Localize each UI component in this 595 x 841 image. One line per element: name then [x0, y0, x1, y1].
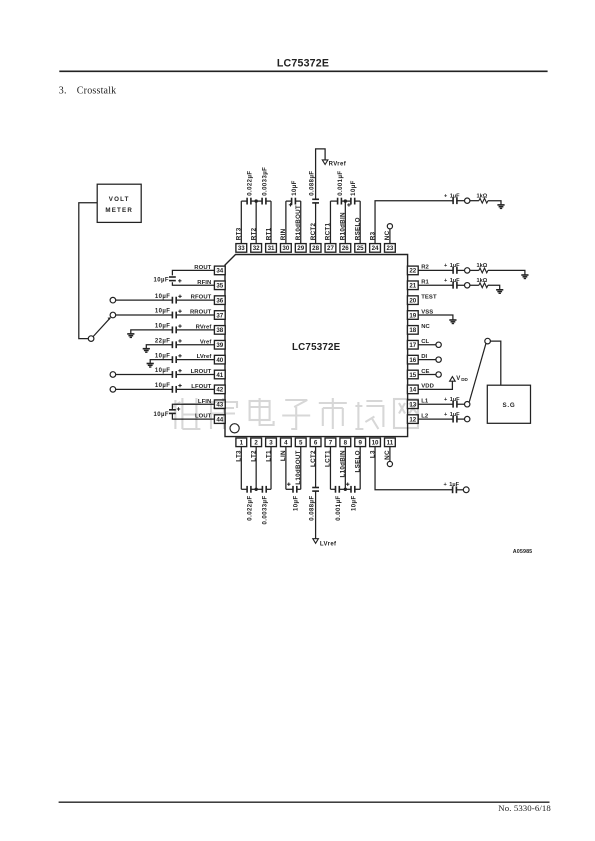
svg-text:7: 7 — [329, 440, 333, 447]
svg-text:40: 40 — [216, 357, 223, 364]
pin 13 box — [407, 400, 418, 409]
wire pin24 R3 lead and run to RC filter — [375, 201, 453, 244]
svg-text:6: 6 — [314, 440, 318, 447]
ground (VSS) — [449, 319, 456, 321]
junction RT2 node — [254, 199, 257, 202]
svg-text:14: 14 — [409, 387, 416, 394]
pin 7 box — [325, 438, 336, 447]
svg-text:34: 34 — [216, 268, 223, 275]
svg-text:27: 27 — [327, 245, 334, 252]
wire pin32 lead — [255, 201, 257, 244]
svg-text:1µF: 1µF — [450, 278, 460, 284]
svg-text:1kΩ: 1kΩ — [477, 193, 488, 199]
svg-text:1µF: 1µF — [450, 263, 460, 269]
svg-text:31: 31 — [268, 245, 275, 252]
pin 25 box — [355, 244, 366, 253]
pin 36 box — [214, 296, 225, 305]
svg-text:5: 5 — [299, 440, 303, 447]
svg-text:36: 36 — [216, 297, 223, 304]
pin 16 box — [407, 355, 418, 364]
pin 2 box — [251, 438, 262, 447]
wire terminal to resistor — [470, 200, 479, 202]
svg-text:4: 4 — [284, 440, 288, 447]
capacitor 0.0033uF (RT2-RT1) — [261, 198, 263, 205]
capacitor 10uF (L10dBIN-LSELO) — [350, 486, 352, 493]
terminal (RFOUT measure point) — [110, 297, 116, 303]
pin 15 box — [407, 370, 418, 379]
wire pin16 DI stub — [418, 359, 436, 361]
wire resistor to ground — [488, 201, 501, 205]
capacitor 10uF (ROUT-RFIN) — [169, 276, 176, 278]
pin 20 box — [407, 296, 418, 305]
capacitor 10µF (LROUT) — [171, 371, 173, 378]
pin 22 box — [407, 266, 418, 275]
pin 6 box — [310, 438, 321, 447]
capacitor 10uF (R10dBIN-RSELO) — [350, 198, 352, 205]
wire RIN-R10dBOUT link — [286, 200, 292, 202]
capacitor 22uF (Vref) — [171, 341, 173, 348]
IC pin-1 index dot — [230, 424, 239, 433]
wire pin23 NC stub — [389, 229, 391, 244]
junction L10dBIN node — [344, 488, 347, 491]
wire cap to ground — [150, 360, 172, 364]
op IC U1 LC75372E body (44-pin QFP) — [225, 255, 408, 437]
wire cap to terminal — [456, 489, 463, 491]
wire pin19 VSS to ground — [418, 315, 453, 320]
capacitor 10uF (LIN-L10dBOUT) — [292, 486, 294, 493]
junction LT2 node — [254, 488, 257, 491]
wire terminal to cap — [116, 314, 173, 316]
terminal (RROUT measure point) — [110, 312, 116, 318]
svg-text:35: 35 — [216, 283, 223, 290]
svg-text:37: 37 — [216, 312, 223, 319]
pin 21 box — [407, 281, 418, 290]
wire cap to terminal — [457, 284, 465, 286]
pin 11 box — [385, 438, 396, 447]
polarity + mark — [178, 295, 181, 297]
svg-text:0.022µF: 0.022µF — [247, 495, 253, 520]
wire pin4 lead — [285, 447, 287, 490]
svg-text:20: 20 — [409, 297, 416, 304]
wire pin31 lead — [270, 201, 272, 244]
terminal CL — [436, 342, 441, 347]
ground (RVref) — [127, 333, 134, 335]
svg-text:0.088µF: 0.088µF — [309, 495, 315, 520]
ground (R2 network) — [521, 274, 528, 276]
svg-text:S.G: S.G — [502, 402, 515, 409]
svg-text:22µF: 22µF — [155, 338, 170, 344]
pin 19 box — [407, 311, 418, 320]
svg-text:1: 1 — [240, 440, 244, 447]
svg-text:25: 25 — [357, 245, 364, 252]
pin 32 box — [251, 244, 262, 253]
wire pin12 L2 to cap — [418, 418, 453, 420]
terminal (R1 measure point) — [465, 283, 470, 288]
polarity + mark — [287, 483, 290, 485]
node RVref (top) — [322, 160, 328, 165]
wire terminal to resistor — [470, 284, 479, 286]
svg-text:LC75372E: LC75372E — [277, 58, 329, 70]
svg-text:A05985: A05985 — [513, 549, 532, 555]
terminal NC (pin23) — [387, 224, 392, 229]
header rule — [59, 70, 547, 72]
polarity + mark — [178, 355, 181, 357]
svg-text:1µF: 1µF — [450, 412, 460, 418]
wire pin40 LVref to cap — [176, 359, 214, 361]
pin 39 box — [214, 340, 225, 349]
svg-text:21: 21 — [409, 283, 416, 290]
volt meter M1 — [97, 184, 141, 222]
svg-text:1µF: 1µF — [449, 482, 459, 488]
pin 27 box — [325, 244, 336, 253]
capacitor 1uF (L3) — [452, 486, 454, 493]
wire RCT2 to RVref — [316, 149, 326, 199]
wire S.G pole to generator — [490, 341, 500, 385]
resistor 1k (R2) — [479, 268, 488, 273]
pin 9 box — [355, 438, 366, 447]
pin 35 box — [214, 281, 225, 290]
pin 28 box — [310, 244, 321, 253]
svg-text:29: 29 — [297, 245, 304, 252]
wire cap to pin — [176, 314, 214, 316]
svg-text:19: 19 — [409, 312, 416, 319]
signal generator S.G box — [487, 385, 530, 423]
ground (Vref) — [143, 348, 150, 350]
terminal CE — [436, 372, 441, 377]
junction R10dBIN node — [344, 199, 347, 202]
svg-text:DD: DD — [461, 377, 468, 382]
svg-text:42: 42 — [216, 387, 223, 394]
wire pin14 VDD to supply — [418, 381, 452, 389]
svg-text:30: 30 — [282, 245, 289, 252]
svg-text:2: 2 — [254, 440, 258, 447]
svg-text:1µF: 1µF — [450, 193, 460, 199]
pin 31 box — [266, 244, 277, 253]
capacitor 10µF (RFOUT) — [171, 297, 173, 304]
pin 44 box — [214, 415, 225, 424]
pin 24 box — [370, 244, 381, 253]
svg-text:+: + — [444, 482, 448, 488]
wire cap to pin — [176, 373, 214, 375]
terminal (R2 measure point) — [465, 268, 470, 273]
wire pin30 lead — [285, 201, 287, 244]
wire cap to ground — [131, 330, 173, 334]
svg-text:Crosstalk: Crosstalk — [77, 86, 117, 97]
wire cap to ground — [146, 345, 172, 349]
wire pin11 NC stub — [389, 447, 391, 462]
terminal (LFOUT measure point) — [110, 387, 116, 393]
svg-text:44: 44 — [216, 416, 223, 423]
svg-text:1kΩ: 1kΩ — [477, 263, 488, 269]
wire pin9 lead — [359, 447, 361, 490]
svg-text:10µF: 10µF — [155, 324, 170, 330]
svg-text:1µF: 1µF — [450, 397, 460, 403]
svg-text:33: 33 — [238, 245, 245, 252]
pin 10 box — [370, 438, 381, 447]
capacitor 0.001uF (LCT1-L10dBIN) — [335, 486, 337, 493]
svg-text:10µF: 10µF — [351, 180, 357, 196]
wire resistor to ground — [488, 270, 525, 275]
svg-text:1kΩ: 1kΩ — [477, 278, 488, 284]
svg-text:10µF: 10µF — [292, 180, 298, 196]
wire terminal to cap — [116, 388, 173, 390]
ground (LVref) — [147, 363, 154, 365]
wire pin33 lead — [240, 201, 242, 244]
svg-text:METER: METER — [105, 207, 133, 214]
wire pin5 lead — [300, 447, 302, 490]
wire resistor to ground — [488, 285, 500, 290]
wire pin38 RVref to cap — [176, 329, 214, 331]
wire LCT1-L10dBIN-LSELO bottom bus — [330, 488, 335, 490]
svg-text:0.001µF: 0.001µF — [336, 495, 342, 520]
wire pin22 R2 to cap — [418, 269, 453, 271]
svg-text:VOLT: VOLT — [109, 196, 130, 203]
capacitor 1uF (R2) — [452, 267, 454, 274]
svg-text:10µF: 10µF — [155, 309, 170, 315]
capacitor 1uF (R1) — [452, 282, 454, 289]
wire cap to pin35 RFIN — [172, 282, 214, 285]
pin 33 box — [236, 244, 247, 253]
switch arm SW2 (signal generator to L1) — [469, 344, 486, 402]
svg-text:8: 8 — [344, 440, 348, 447]
switch arm SW1 (to RROUT) — [93, 318, 110, 337]
svg-text:3.: 3. — [59, 86, 67, 97]
svg-text:TEST: TEST — [421, 294, 437, 300]
polarity + mark — [178, 340, 181, 342]
svg-text:10: 10 — [372, 440, 379, 447]
wire cap to terminal — [457, 418, 465, 420]
terminal (LROUT measure point) — [110, 372, 116, 378]
wire terminal to resistor — [470, 269, 479, 271]
node LVref (bottom) — [313, 539, 319, 544]
wire cap to pin44 LOUT — [172, 414, 214, 419]
pin 42 box — [214, 385, 225, 394]
wire pin39 Vref to cap — [176, 344, 214, 346]
svg-text:17: 17 — [409, 342, 416, 349]
svg-text:18: 18 — [409, 327, 416, 334]
svg-text:RVref: RVref — [329, 161, 347, 167]
capacitor 0.0033uF (LT2-LT1) — [261, 486, 263, 493]
pin 5 box — [295, 438, 306, 447]
pin 37 box — [214, 311, 225, 320]
svg-text:+: + — [444, 193, 448, 199]
capacitor 1uF (L1) — [452, 401, 454, 408]
svg-text:9: 9 — [358, 440, 362, 447]
pin 18 box — [407, 326, 418, 335]
wire LIN-L10dBOUT link — [286, 488, 293, 490]
wire cap to terminal — [457, 200, 465, 202]
pin 23 box — [385, 244, 396, 253]
svg-text:LC75372E: LC75372E — [292, 342, 341, 353]
wire LCT2 to LVref — [315, 491, 317, 539]
svg-text:No. 5330-6/18: No. 5330-6/18 — [498, 803, 551, 813]
svg-text:0.088µF: 0.088µF — [309, 171, 315, 196]
selector pole terminal — [88, 336, 94, 342]
pin 26 box — [340, 244, 351, 253]
wire pin7 lead — [329, 447, 331, 490]
terminal NC (pin11) — [387, 461, 392, 466]
wire pin28 lead — [315, 203, 317, 244]
svg-text:10µF: 10µF — [153, 278, 168, 284]
svg-text:10µF: 10µF — [293, 495, 299, 511]
wire pin10 L3 lead and run to terminal — [375, 447, 453, 490]
wire cap to pin — [176, 388, 214, 390]
svg-text:28: 28 — [312, 245, 319, 252]
terminal (L2 measure point) — [465, 416, 470, 421]
capacitor 0.022uF (LT3-LT2) — [246, 486, 248, 493]
svg-text:41: 41 — [216, 372, 223, 379]
wire pin34 ROUT to coupling cap — [172, 270, 214, 275]
footer rule — [59, 801, 550, 803]
polarity + mark — [347, 204, 350, 206]
svg-text:+: + — [444, 278, 448, 284]
svg-text:10µF: 10µF — [155, 353, 170, 359]
wire cap to pin — [176, 299, 214, 301]
capacitor 0.088uF (RCT2) — [312, 198, 319, 200]
svg-text:22: 22 — [409, 268, 416, 275]
pin 40 box — [214, 355, 225, 364]
pin 34 box — [214, 266, 225, 275]
pin 17 box — [407, 340, 418, 349]
polarity + mark — [178, 370, 181, 372]
svg-text:0.0033µF: 0.0033µF — [262, 167, 268, 196]
terminal (R3 measure point) — [465, 198, 470, 203]
wire pin17 CL stub — [418, 344, 436, 346]
polarity + mark — [289, 204, 292, 206]
wire pin26 lead — [344, 201, 346, 244]
capacitor 0.022uF (RT3-RT2) — [246, 198, 248, 205]
svg-text:16: 16 — [409, 357, 416, 364]
svg-text:V: V — [456, 376, 460, 382]
svg-text:24: 24 — [372, 245, 379, 252]
svg-text:23: 23 — [386, 245, 393, 252]
svg-text:NC: NC — [421, 324, 430, 330]
capacitor 10uF (LVref) — [171, 356, 173, 363]
svg-text:0.001µF: 0.001µF — [338, 171, 344, 196]
svg-text:+: + — [444, 397, 448, 403]
resistor 1k (R3) — [479, 198, 488, 203]
capacitor 0.001uF (RCT1-R10dBIN) — [337, 198, 339, 205]
watermark (faint) — [172, 398, 418, 429]
wire pin25 lead — [359, 201, 361, 244]
pin 1 box — [236, 438, 247, 447]
pin 8 box — [340, 438, 351, 447]
wire pin6 lead — [315, 447, 317, 488]
terminal DI — [436, 357, 441, 362]
svg-text:39: 39 — [216, 342, 223, 349]
pin 29 box — [295, 244, 306, 253]
svg-text:11: 11 — [387, 440, 394, 447]
pin 41 box — [214, 370, 225, 379]
polarity + mark — [178, 385, 181, 387]
wire terminal to cap — [116, 299, 173, 301]
pin 14 box — [407, 385, 418, 394]
svg-text:0.0033µF: 0.0033µF — [263, 495, 269, 524]
capacitor 10µF (RROUT) — [171, 312, 173, 319]
capacitor 10µF (LFOUT) — [171, 386, 173, 393]
wire pin3 lead — [270, 447, 272, 490]
wire RT3-RT2-RT1 top bus — [241, 200, 247, 202]
svg-text:3: 3 — [269, 440, 273, 447]
resistor 1k (R1) — [479, 283, 488, 288]
ground (R1 network) — [496, 289, 503, 291]
svg-text:26: 26 — [342, 245, 349, 252]
svg-text:+: + — [444, 263, 448, 269]
wire pin13 L1 to cap — [418, 403, 453, 405]
pin 30 box — [280, 244, 291, 253]
wire pin8 lead — [344, 447, 346, 490]
capacitor 1uF (L2) — [452, 416, 454, 423]
polarity + mark — [178, 310, 181, 312]
svg-text:38: 38 — [216, 327, 223, 334]
wire cap to terminal — [457, 269, 465, 271]
svg-text:32: 32 — [253, 245, 260, 252]
svg-text:LVref: LVref — [320, 542, 337, 548]
wire LT3-LT2-LT1 bottom bus — [241, 488, 247, 490]
wire terminal to cap — [116, 373, 173, 375]
ground (R3 network) — [497, 204, 504, 206]
svg-text:12: 12 — [409, 416, 416, 423]
svg-text:15: 15 — [409, 372, 416, 379]
wire pin27 lead — [329, 201, 331, 244]
capacitor 10uF (LFIN-LOUT) — [169, 409, 176, 411]
selector terminal (S.G pole) — [485, 338, 491, 344]
pin 12 box — [407, 415, 418, 424]
svg-text:10µF: 10µF — [155, 368, 170, 374]
capacitor 1uF (R3) — [452, 197, 454, 204]
wire pin15 CE stub — [418, 373, 436, 375]
wire volt meter to selector pole — [79, 203, 97, 339]
capacitor 10uF (RIN-R10dBOUT) — [291, 198, 293, 205]
svg-text:10µF: 10µF — [155, 383, 170, 389]
terminal (L1 measure point) — [465, 402, 470, 407]
wire RCT1-R10dBIN-RSELO top bus — [330, 200, 337, 202]
svg-text:0.022µF: 0.022µF — [247, 171, 253, 196]
wire pin21 R1 to cap — [418, 284, 453, 286]
polarity + mark — [177, 408, 180, 410]
pin 3 box — [266, 438, 277, 447]
pin 4 box — [280, 438, 291, 447]
svg-text:10µF: 10µF — [153, 412, 168, 418]
polarity + mark — [178, 280, 181, 282]
terminal (L3 measure point) — [463, 487, 469, 493]
wire pin43 LFIN to coupling cap — [172, 404, 214, 409]
wire pin29 lead — [300, 201, 302, 244]
capacitor 10uF (RVref) — [171, 326, 173, 333]
pin 43 box — [214, 400, 225, 409]
wire cap to terminal — [457, 403, 465, 405]
pin 38 box — [214, 326, 225, 335]
svg-text:+: + — [444, 412, 448, 418]
polarity + mark — [346, 483, 349, 485]
wire pin1 lead — [240, 447, 242, 490]
polarity + mark — [178, 325, 181, 327]
capacitor 0.088uF (LCT2) — [312, 487, 319, 489]
power VDD symbol — [450, 377, 456, 382]
svg-text:10µF: 10µF — [351, 495, 357, 511]
wire pin2 lead — [255, 447, 257, 490]
svg-text:10µF: 10µF — [155, 294, 170, 300]
